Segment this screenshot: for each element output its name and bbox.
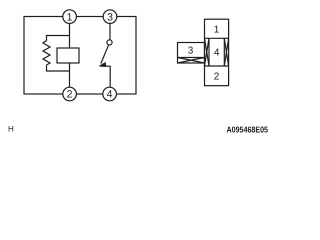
- switch pivot contact: [107, 40, 112, 45]
- svg-text:3: 3: [188, 46, 194, 57]
- switch blade: [101, 45, 109, 64]
- connector body outline: [205, 19, 229, 86]
- svg-text:4: 4: [214, 48, 220, 59]
- relay outer box: [24, 17, 136, 95]
- wire resistor bottom: [47, 65, 70, 71]
- svg-text:4: 4: [107, 89, 113, 101]
- wire coil branch vertical: [69, 24, 71, 88]
- svg-text:1: 1: [67, 11, 73, 23]
- svg-text:3: 3: [107, 11, 113, 23]
- switch arrowhead: [99, 62, 107, 67]
- terminal 2: [63, 87, 77, 101]
- svg-text:A095468E05: A095468E05: [227, 124, 269, 134]
- cell 4 left strip hatch: [205, 38, 210, 66]
- svg-text:2: 2: [67, 89, 73, 101]
- connector divider cell4/cell2: [205, 65, 229, 67]
- relay coil: [57, 48, 79, 63]
- svg-text:1: 1: [214, 25, 220, 36]
- terminal 3: [103, 10, 117, 24]
- cell 3 body outline: [178, 43, 205, 64]
- connector divider cell1/cell4: [205, 37, 229, 39]
- cell 3 strip hatch: [178, 58, 205, 64]
- cell 4 inner right wall: [223, 38, 225, 66]
- svg-text:H: H: [8, 125, 14, 134]
- svg-text:2: 2: [214, 72, 220, 83]
- wire switch bottom: [103, 66, 111, 87]
- cell 3 divider: [178, 57, 205, 59]
- terminal 1: [63, 10, 77, 24]
- cell 4 right strip hatch: [224, 38, 228, 66]
- wire switch top: [109, 24, 111, 41]
- terminal 4: [103, 87, 117, 101]
- cell 4 inner left wall: [208, 38, 210, 66]
- wire resistor top: [47, 36, 70, 41]
- resistor: [43, 41, 50, 66]
